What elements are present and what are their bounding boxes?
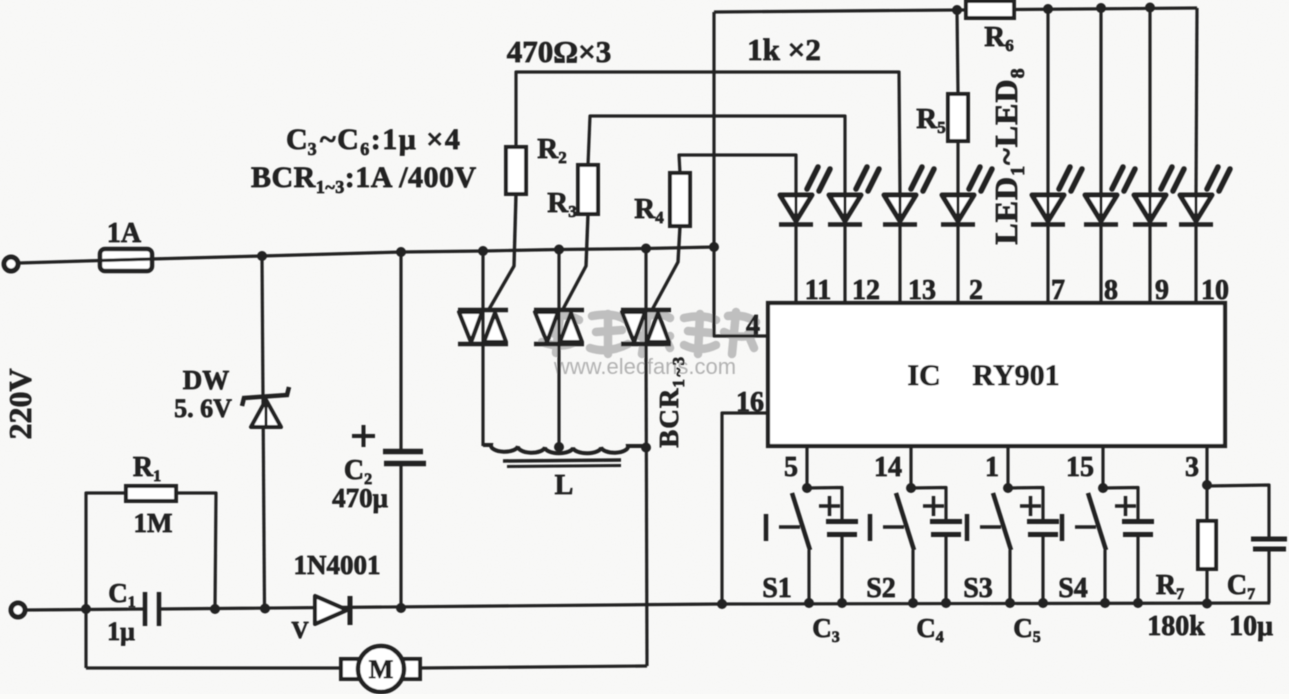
- svg-text:2: 2: [969, 275, 983, 306]
- svg-text:4: 4: [746, 310, 760, 341]
- svg-text:S3: S3: [963, 573, 993, 604]
- svg-text:RY901: RY901: [972, 359, 1059, 392]
- svg-text:470μ: 470μ: [332, 483, 388, 513]
- svg-text:9: 9: [1155, 275, 1169, 306]
- svg-text:1A: 1A: [107, 218, 142, 249]
- svg-text:8: 8: [1104, 275, 1118, 306]
- svg-text:15: 15: [1066, 452, 1094, 483]
- svg-text:1μ: 1μ: [107, 617, 135, 646]
- svg-text:BCR1~3:1A /400V: BCR1~3:1A /400V: [251, 161, 477, 197]
- svg-text:DW: DW: [183, 365, 230, 395]
- svg-text:180k: 180k: [1147, 611, 1205, 642]
- svg-text:1N4001: 1N4001: [294, 550, 381, 580]
- svg-text:10μ: 10μ: [1229, 611, 1273, 642]
- svg-text:5: 5: [784, 452, 798, 483]
- svg-text:11: 11: [805, 275, 831, 306]
- svg-text:~C6:1μ ×4: ~C6:1μ ×4: [320, 123, 461, 159]
- svg-text:1M: 1M: [134, 508, 173, 538]
- svg-text:S4: S4: [1058, 573, 1088, 604]
- svg-text:1: 1: [985, 452, 999, 483]
- svg-text:5. 6V: 5. 6V: [174, 394, 232, 423]
- svg-text:16: 16: [736, 387, 764, 418]
- svg-text:S1: S1: [762, 573, 792, 604]
- svg-text:14: 14: [874, 452, 902, 483]
- svg-text:13: 13: [908, 275, 936, 306]
- svg-text:S2: S2: [866, 573, 896, 604]
- svg-text:3: 3: [1185, 452, 1199, 483]
- svg-text:M: M: [369, 655, 394, 684]
- svg-text:LED1~LED8: LED1~LED8: [988, 67, 1029, 244]
- svg-text:V: V: [291, 618, 309, 644]
- svg-text:10: 10: [1201, 275, 1229, 306]
- svg-text:L: L: [555, 470, 574, 501]
- svg-text:220V: 220V: [2, 368, 38, 439]
- svg-text:7: 7: [1051, 275, 1065, 306]
- svg-text:1k ×2: 1k ×2: [747, 32, 821, 67]
- svg-text:470Ω×3: 470Ω×3: [507, 34, 612, 69]
- svg-text:12: 12: [852, 275, 880, 306]
- svg-text:IC: IC: [907, 359, 940, 392]
